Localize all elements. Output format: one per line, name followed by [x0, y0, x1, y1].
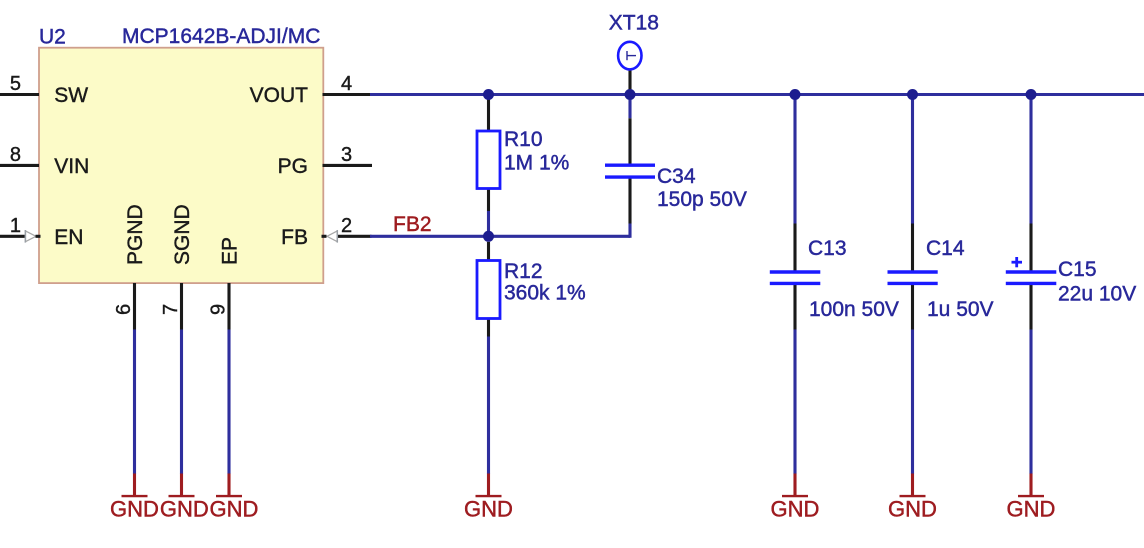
IC U2 MCP1642B-ADJI/MC body [39, 48, 323, 283]
svg-text:100n 50V: 100n 50V [809, 298, 899, 321]
svg-text:MCP1642B-ADJI/MC: MCP1642B-ADJI/MC [122, 25, 320, 48]
resistor R12 [477, 242, 500, 337]
svg-text:GND: GND [888, 497, 937, 522]
svg-text:GND: GND [464, 497, 513, 522]
svg-text:360k 1%: 360k 1% [504, 282, 586, 305]
svg-text:C15: C15 [1058, 258, 1097, 281]
junction VOUT/XT18 [625, 89, 636, 100]
svg-text:GND: GND [210, 497, 259, 522]
svg-text:SGND: SGND [171, 204, 194, 265]
wire R10 bottom lead net [487, 211, 490, 236]
svg-text:6: 6 [113, 304, 135, 315]
wire FB net horizontal [370, 235, 630, 238]
svg-text:U2: U2 [39, 26, 66, 49]
wire R12 to GND [487, 337, 490, 475]
svg-text:7: 7 [160, 304, 182, 315]
pin 4 VOUT wire [323, 93, 372, 96]
pin 1 EN wire [0, 230, 41, 243]
pin 7 SGND wire [180, 283, 183, 330]
junction VOUT/C15 [1026, 89, 1037, 100]
ground symbol pin6 [122, 474, 148, 497]
svg-text:EN: EN [54, 226, 83, 249]
resistor R10 [477, 95, 500, 212]
junction VOUT/R10 [483, 89, 494, 100]
wire VOUT net horizontal [370, 93, 1144, 96]
pin 5 SW wire [0, 93, 39, 96]
wire C13 top [793, 95, 796, 224]
svg-text:GND: GND [771, 497, 820, 522]
svg-text:22u 10V: 22u 10V [1058, 283, 1136, 306]
pin 9 EP wire [227, 283, 230, 330]
ground symbol R12 [476, 474, 502, 497]
svg-text:XT18: XT18 [609, 11, 659, 34]
svg-text:2: 2 [341, 215, 352, 237]
svg-text:GND: GND [160, 497, 209, 522]
capacitor C34 [605, 95, 655, 224]
test point XT18 [618, 42, 641, 95]
svg-text:GND: GND [1007, 497, 1056, 522]
svg-text:C13: C13 [808, 237, 847, 260]
ground symbol C15 [1018, 474, 1044, 497]
capacitor C15 polarized [1006, 224, 1057, 330]
junction FB/R12 [483, 231, 494, 242]
svg-text:R10: R10 [504, 128, 543, 151]
wire C15 top [1029, 95, 1032, 224]
pin 3 PG wire [323, 164, 373, 167]
ground symbol pin7 [169, 474, 195, 497]
svg-text:R12: R12 [504, 260, 543, 283]
svg-text:150p 50V: 150p 50V [657, 188, 747, 211]
svg-text:1M 1%: 1M 1% [504, 152, 569, 175]
svg-text:GND: GND [110, 497, 159, 522]
svg-text:VIN: VIN [54, 155, 89, 178]
junction VOUT/C13 [790, 89, 801, 100]
svg-text:1: 1 [10, 215, 21, 237]
svg-text:8: 8 [10, 144, 21, 166]
capacitor C13 [770, 224, 821, 330]
svg-text:PGND: PGND [124, 204, 147, 265]
svg-text:9: 9 [208, 304, 230, 315]
capacitor C14 [888, 224, 938, 330]
junction VOUT/C14 [907, 89, 918, 100]
svg-text:C34: C34 [657, 165, 696, 188]
svg-text:EP: EP [219, 237, 242, 265]
ground symbol C14 [900, 474, 926, 497]
svg-text:FB2: FB2 [393, 213, 432, 236]
pin 6 PGND wire [133, 283, 136, 330]
pin 2 FB wire [322, 230, 372, 243]
wire pin9 to GND [227, 330, 230, 475]
wire C15 to GND [1029, 330, 1032, 475]
wire C14 to GND [911, 330, 914, 475]
svg-text:5: 5 [10, 73, 21, 95]
wire C34 lower bend [628, 224, 631, 238]
svg-text:3: 3 [341, 144, 352, 166]
svg-text:PG: PG [278, 155, 308, 178]
wire pin7 to GND [180, 330, 183, 475]
svg-text:VOUT: VOUT [250, 84, 309, 107]
svg-text:FB: FB [281, 226, 308, 249]
svg-text:4: 4 [341, 73, 352, 95]
wire C14 top [911, 95, 914, 224]
svg-text:C14: C14 [926, 237, 965, 260]
svg-text:1u 50V: 1u 50V [927, 298, 994, 321]
wire pin6 to GND [133, 330, 136, 475]
ground symbol pin9 [216, 474, 242, 497]
svg-text:SW: SW [54, 84, 88, 107]
pin 8 VIN wire [0, 164, 39, 167]
wire C13 to GND [793, 330, 796, 475]
ground symbol C13 [782, 474, 808, 497]
